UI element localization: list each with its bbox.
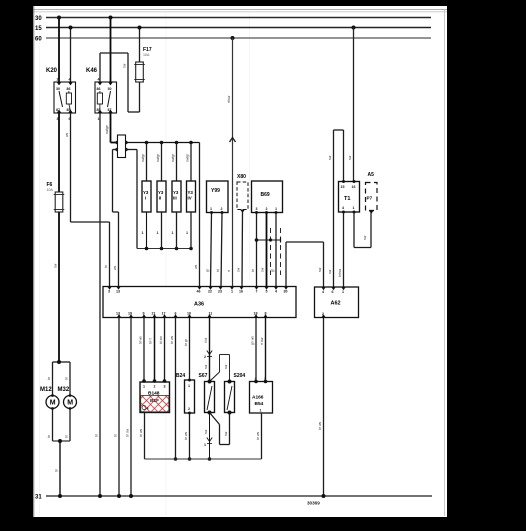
svg-text:16: 16 bbox=[239, 290, 243, 294]
svg-text:4: 4 bbox=[147, 407, 149, 411]
svg-text:30: 30 bbox=[56, 87, 60, 91]
svg-text:1: 1 bbox=[186, 231, 188, 235]
wire Y99 pin1 to A36 pin22 bbox=[206, 213, 212, 287]
svg-text:sw: sw bbox=[363, 235, 367, 240]
svg-text:1: 1 bbox=[98, 117, 100, 121]
wire top rail to A36 pin46 bbox=[194, 143, 200, 287]
wire A36 pin8 to A166 bbox=[260, 318, 266, 382]
svg-text:sw: sw bbox=[224, 431, 228, 436]
svg-text:M: M bbox=[50, 400, 56, 407]
svg-text:1: 1 bbox=[342, 290, 344, 294]
wire B69 pin1 to A36 pin4 bbox=[271, 213, 277, 287]
svg-text:br ws: br ws bbox=[139, 429, 143, 437]
wire M12 M32 to bus31 bbox=[47, 409, 70, 499]
svg-text:1: 1 bbox=[275, 207, 277, 211]
svg-text:1: 1 bbox=[260, 409, 262, 413]
svg-text:13: 13 bbox=[116, 290, 120, 294]
svg-text:6: 6 bbox=[332, 290, 334, 294]
svg-text:1: 1 bbox=[157, 231, 159, 235]
svg-text:bl: bl bbox=[216, 269, 220, 272]
svg-text:X80: X80 bbox=[237, 174, 246, 180]
wire B69 pin2 to A36 pin5 bbox=[261, 213, 267, 287]
svg-text:22: 22 bbox=[208, 290, 212, 294]
fuse F17 10A bbox=[134, 47, 152, 82]
svg-text:br/sw: br/sw bbox=[338, 268, 342, 277]
svg-text:30: 30 bbox=[108, 87, 112, 91]
wire F6 to motor split bbox=[53, 212, 71, 364]
ignition module A62 bbox=[315, 287, 359, 318]
svg-text:P7: P7 bbox=[367, 196, 373, 201]
svg-text:K20: K20 bbox=[46, 68, 58, 74]
wire K46 pin1 to bus31 bbox=[95, 113, 103, 498]
svg-text:46: 46 bbox=[197, 290, 201, 294]
wire A36 pin18 to A166 bbox=[251, 318, 257, 382]
injection valve Y3 IV bbox=[187, 181, 196, 212]
svg-text:10A: 10A bbox=[143, 53, 150, 57]
svg-text:III: III bbox=[173, 196, 177, 201]
wire S67 bottom to ground rail bbox=[204, 413, 212, 461]
svg-text:sw: sw bbox=[261, 267, 265, 272]
svg-text:18: 18 bbox=[254, 312, 258, 316]
svg-text:T1: T1 bbox=[344, 196, 350, 202]
wire splice to injector top rail bbox=[126, 141, 200, 145]
svg-text:ws: ws bbox=[194, 265, 198, 269]
svg-text:M12: M12 bbox=[40, 387, 52, 393]
svg-text:sw: sw bbox=[204, 429, 208, 434]
svg-text:br ws: br ws bbox=[256, 432, 260, 440]
wire A36 pin30 to A62 bbox=[286, 242, 324, 287]
svg-text:M32: M32 bbox=[58, 387, 70, 393]
svg-text:A36: A36 bbox=[194, 302, 204, 308]
motor M32 bbox=[58, 387, 77, 410]
svg-text:rt/sw: rt/sw bbox=[227, 95, 231, 103]
injection valve Y3 I bbox=[142, 181, 151, 212]
svg-text:br sw: br sw bbox=[126, 428, 130, 437]
shield of B69 wiring bbox=[255, 228, 281, 275]
svg-text:II: II bbox=[159, 196, 161, 201]
wire split to M32 bbox=[65, 362, 71, 396]
svg-text:ws: ws bbox=[113, 266, 117, 270]
wire bus30 to K20 pin2 bbox=[57, 16, 61, 83]
svg-text:br ws: br ws bbox=[318, 422, 322, 430]
svg-text:sw/gr: sw/gr bbox=[186, 153, 190, 162]
switch S204 bbox=[225, 373, 246, 415]
injection valve Y3 III bbox=[172, 181, 181, 212]
svg-text:Y3: Y3 bbox=[143, 190, 149, 195]
wire rail to Y3 II bbox=[156, 143, 162, 182]
svg-text:4: 4 bbox=[69, 78, 71, 82]
wire K46 pin3 to splice bbox=[105, 113, 118, 143]
svg-text:B1F: B1F bbox=[150, 398, 159, 404]
svg-text:4: 4 bbox=[275, 290, 277, 294]
svg-text:11: 11 bbox=[209, 312, 213, 316]
svg-text:1: 1 bbox=[210, 207, 212, 211]
svg-text:4: 4 bbox=[322, 290, 324, 294]
wire A36 pin6 to ground rail bbox=[170, 318, 177, 461]
wire Y3 III to bottom rail bbox=[172, 212, 177, 249]
svg-text:B54: B54 bbox=[255, 401, 264, 407]
svg-text:IV: IV bbox=[188, 196, 192, 201]
svg-text:1: 1 bbox=[188, 384, 190, 388]
wire A36 pin19 to bus31 bbox=[126, 318, 134, 499]
control unit A166 B54 bbox=[250, 377, 273, 413]
svg-text:5: 5 bbox=[266, 290, 268, 294]
wire bus15 to T1 pin15 bbox=[348, 26, 356, 182]
svg-text:sw: sw bbox=[318, 267, 322, 272]
svg-text:2: 2 bbox=[204, 355, 206, 359]
svg-text:br gr: br gr bbox=[184, 338, 188, 346]
wire A62 pin2 to bus31 bbox=[318, 318, 326, 499]
svg-text:bl sw: bl sw bbox=[159, 336, 163, 344]
wire bus15 to K20 pin4 bbox=[69, 26, 73, 83]
svg-text:li bl: li bl bbox=[204, 338, 208, 343]
svg-text:1: 1 bbox=[204, 443, 206, 447]
svg-text:30369: 30369 bbox=[307, 501, 320, 506]
wire bus30 to K46 pin2 bbox=[109, 16, 113, 83]
svg-text:sw: sw bbox=[237, 267, 241, 272]
motor M12 bbox=[40, 387, 59, 410]
connector X80 bbox=[237, 174, 248, 213]
wire A36 pin10 to B24 bbox=[184, 318, 190, 381]
svg-text:4: 4 bbox=[98, 78, 100, 82]
A36 pin connector arrows bbox=[107, 287, 288, 318]
ignition coil T1 bbox=[339, 180, 360, 214]
fuse F6 10A bbox=[47, 182, 65, 212]
wire A36 pin11 to S67 bbox=[204, 318, 212, 382]
svg-text:sw: sw bbox=[204, 364, 208, 369]
svg-text:1: 1 bbox=[172, 231, 174, 235]
wire Y3 II to bottom rail bbox=[157, 212, 162, 249]
busbar 60 bbox=[35, 37, 431, 43]
wire B148 pin4 to ground rail bbox=[139, 413, 145, 460]
svg-text:15: 15 bbox=[35, 26, 42, 32]
svg-text:2: 2 bbox=[57, 78, 59, 82]
svg-text:10A: 10A bbox=[47, 188, 54, 192]
svg-text:3: 3 bbox=[164, 385, 166, 389]
busbar 31 bbox=[35, 495, 432, 501]
svg-text:A62: A62 bbox=[331, 301, 341, 307]
wire bus15 to F17 bbox=[138, 26, 142, 63]
wire S204 bottom to S67 bottom bbox=[210, 413, 230, 445]
wire rail to Y3 III bbox=[171, 143, 177, 182]
wire S67 top to S204 top bbox=[210, 355, 230, 382]
svg-text:I: I bbox=[145, 196, 146, 201]
wire A36 pin21 to B148 pin2 bbox=[149, 318, 155, 381]
svg-text:7: 7 bbox=[256, 290, 258, 294]
svg-text:ws: ws bbox=[65, 133, 69, 137]
svg-text:1: 1 bbox=[353, 206, 355, 210]
wire split to M12 bbox=[47, 362, 53, 396]
valve Y99 bbox=[207, 181, 229, 214]
wire B24 pin2 to ground rail bbox=[184, 413, 191, 461]
svg-text:1: 1 bbox=[143, 385, 145, 389]
wire X80 to A36 pin16 bbox=[237, 212, 243, 287]
wire A36 pin17 to B148 pin3 bbox=[159, 318, 165, 381]
wire bus60 to A36 pin1 bbox=[227, 36, 236, 287]
wire Y3 I to bottom rail bbox=[142, 212, 147, 249]
svg-text:br ws: br ws bbox=[184, 432, 188, 440]
svg-text:B69: B69 bbox=[261, 192, 270, 198]
wire A36 pin13 to bus31 bbox=[114, 318, 122, 499]
svg-text:2: 2 bbox=[154, 385, 156, 389]
switch S67 bbox=[199, 373, 215, 415]
svg-text:rt bw: rt bw bbox=[260, 337, 264, 345]
svg-text:Y99: Y99 bbox=[211, 188, 220, 194]
svg-text:16: 16 bbox=[352, 185, 356, 189]
svg-text:sw: sw bbox=[123, 63, 127, 68]
svg-text:Y3: Y3 bbox=[158, 190, 164, 195]
svg-text:sw: sw bbox=[328, 269, 332, 274]
svg-text:bl rt: bl rt bbox=[149, 338, 153, 344]
svg-text:B24: B24 bbox=[176, 373, 185, 379]
wire splice to A36 pin13 bbox=[113, 150, 119, 287]
ground rail bbox=[145, 458, 262, 460]
svg-text:sw/gr: sw/gr bbox=[141, 153, 145, 162]
svg-text:Y3: Y3 bbox=[188, 190, 194, 195]
svg-text:2: 2 bbox=[266, 207, 268, 211]
svg-text:86: 86 bbox=[67, 87, 71, 91]
wire rail to Y3 I bbox=[141, 143, 147, 182]
wire rail to Y3 IV bbox=[186, 143, 192, 182]
relay K20 bbox=[46, 68, 76, 121]
wire Y99 pin2 to A36 pin23 bbox=[216, 213, 222, 287]
svg-text:15: 15 bbox=[341, 185, 345, 189]
svg-text:23: 23 bbox=[218, 290, 222, 294]
svg-text:S67: S67 bbox=[199, 373, 208, 379]
svg-text:30: 30 bbox=[35, 16, 42, 22]
svg-text:Y3: Y3 bbox=[173, 190, 179, 195]
A62 pin connector arrows bbox=[321, 287, 345, 318]
wire Y3 IV to bottom rail bbox=[186, 212, 191, 249]
svg-text:2: 2 bbox=[110, 78, 112, 82]
sensor B69 bbox=[252, 181, 283, 214]
svg-text:3: 3 bbox=[108, 290, 110, 294]
wire F17 to K46 coil loop bbox=[100, 53, 140, 112]
svg-text:A166: A166 bbox=[252, 395, 264, 401]
wire T1 pin4 to A62 bbox=[338, 212, 344, 287]
svg-text:1: 1 bbox=[231, 290, 233, 294]
svg-text:31: 31 bbox=[35, 495, 42, 501]
wire B69 pin3 to A36 pin7 bbox=[251, 213, 257, 287]
svg-text:sw: sw bbox=[328, 155, 332, 160]
splice connector X bbox=[114, 135, 129, 158]
svg-text:br ws: br ws bbox=[170, 336, 174, 344]
svg-text:sw: sw bbox=[54, 263, 58, 268]
svg-text:1: 1 bbox=[142, 231, 144, 235]
svg-text:2: 2 bbox=[221, 207, 223, 211]
svg-text:2: 2 bbox=[188, 407, 190, 411]
svg-text:S204: S204 bbox=[234, 373, 246, 379]
svg-text:gn ws: gn ws bbox=[251, 336, 255, 345]
wire splice to injector bottom rail bbox=[126, 150, 193, 251]
sensor B148 bbox=[140, 379, 170, 412]
svg-text:60: 60 bbox=[35, 37, 42, 43]
svg-text:K46: K46 bbox=[86, 68, 98, 74]
relay K46 bbox=[86, 68, 117, 121]
wire T1 pin1 to P7 bbox=[354, 212, 371, 248]
wire T1 pin16 loop to A62 bbox=[328, 130, 344, 287]
svg-text:sw: sw bbox=[348, 155, 352, 160]
svg-text:bl ws: bl ws bbox=[139, 336, 143, 344]
svg-text:3: 3 bbox=[256, 207, 258, 211]
svg-text:10: 10 bbox=[187, 312, 191, 316]
svg-text:sw/gr: sw/gr bbox=[171, 153, 175, 162]
svg-text:sw: sw bbox=[224, 364, 228, 369]
svg-text:rt: rt bbox=[227, 270, 231, 272]
svg-text:30: 30 bbox=[284, 290, 288, 294]
svg-text:86: 86 bbox=[97, 87, 101, 91]
wire A36 pin9 to B148 pin1 bbox=[139, 318, 145, 381]
svg-text:sw/ge: sw/ge bbox=[105, 125, 109, 134]
injection valve Y3 II bbox=[157, 181, 166, 212]
wire K20 pin6 to A36 pin3 bbox=[65, 113, 110, 287]
wire K20 pin3 to fuse F6 bbox=[58, 113, 60, 192]
busbar 30 bbox=[35, 16, 431, 22]
ECU A36 bbox=[103, 287, 296, 318]
tachometer P7 bbox=[366, 183, 378, 214]
sensor B24 bbox=[176, 373, 195, 415]
svg-text:sw/gr: sw/gr bbox=[156, 153, 160, 162]
wire A166 pin1 to ground rail bbox=[256, 413, 262, 459]
svg-text:4: 4 bbox=[342, 206, 344, 210]
busbar 15 bbox=[35, 26, 431, 32]
svg-text:M: M bbox=[67, 400, 73, 407]
svg-text:A5: A5 bbox=[368, 172, 375, 178]
